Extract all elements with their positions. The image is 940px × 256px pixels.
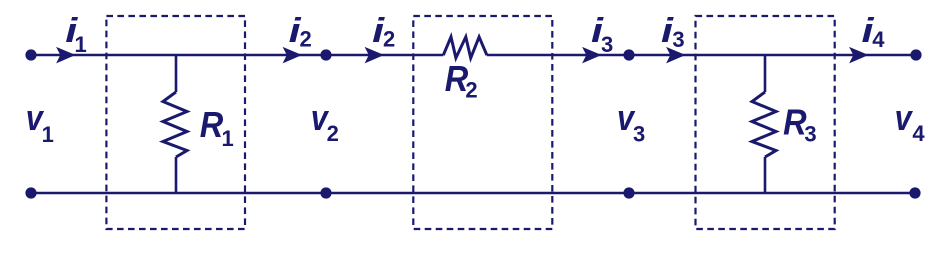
arrow i2 before node	[283, 47, 302, 64]
svg-text:3: 3	[601, 32, 613, 57]
label i4	[862, 12, 886, 52]
svg-text:R: R	[200, 104, 224, 145]
svg-text:2: 2	[465, 77, 477, 102]
dashed box section 2	[413, 16, 552, 229]
label v1	[26, 97, 54, 147]
label i1	[65, 12, 86, 57]
label v4	[895, 97, 926, 146]
arrow i2 after node	[365, 47, 384, 64]
wire top rail right segment	[487, 54, 916, 57]
label R3	[783, 102, 817, 147]
resistor R3	[752, 92, 776, 157]
label i2 before node	[289, 12, 312, 52]
wire R1 stem lower	[175, 157, 178, 193]
svg-text:v: v	[895, 97, 914, 138]
node terminal dot bottom-right	[909, 187, 920, 198]
svg-text:4: 4	[872, 27, 885, 52]
arrow i4	[849, 47, 868, 64]
svg-text:3: 3	[633, 122, 645, 147]
svg-text:R: R	[783, 102, 807, 143]
node v2 dot top	[320, 49, 331, 60]
svg-text:2: 2	[327, 121, 339, 146]
label v3	[617, 97, 645, 146]
node terminal dot top-left	[25, 49, 36, 60]
arrow i1	[56, 47, 75, 64]
svg-text:2: 2	[383, 26, 395, 51]
wire R3 stem lower	[764, 157, 767, 193]
label R2	[445, 58, 478, 102]
svg-text:1: 1	[42, 122, 54, 147]
label R1	[200, 104, 234, 151]
wire R1 stem upper	[175, 55, 178, 92]
arrow i3 before node	[582, 47, 601, 64]
dashed box section 1	[106, 16, 245, 229]
label i3 before node	[591, 12, 613, 57]
svg-text:1: 1	[75, 32, 87, 57]
svg-text:1: 1	[222, 126, 234, 151]
wire top rail left segment	[31, 54, 443, 57]
node terminal dot bottom-left	[25, 187, 36, 198]
svg-text:3: 3	[804, 122, 816, 147]
resistor R2	[443, 37, 487, 58]
node v2 dot bottom	[320, 187, 331, 198]
wire bottom rail	[31, 192, 915, 195]
svg-text:3: 3	[672, 27, 684, 52]
dashed box section 3	[696, 16, 835, 229]
label i2 after node	[372, 12, 395, 52]
svg-text:2: 2	[300, 26, 312, 51]
arrow i3 after node	[666, 47, 685, 64]
label v2	[311, 97, 339, 146]
label i3 after node	[661, 12, 685, 52]
node v3 dot top	[623, 49, 634, 60]
wire R3 stem upper	[764, 55, 767, 92]
svg-text:4: 4	[912, 121, 925, 146]
resistor R1	[163, 92, 187, 157]
node terminal dot top-right	[910, 49, 921, 60]
node v3 dot bottom	[623, 187, 634, 198]
